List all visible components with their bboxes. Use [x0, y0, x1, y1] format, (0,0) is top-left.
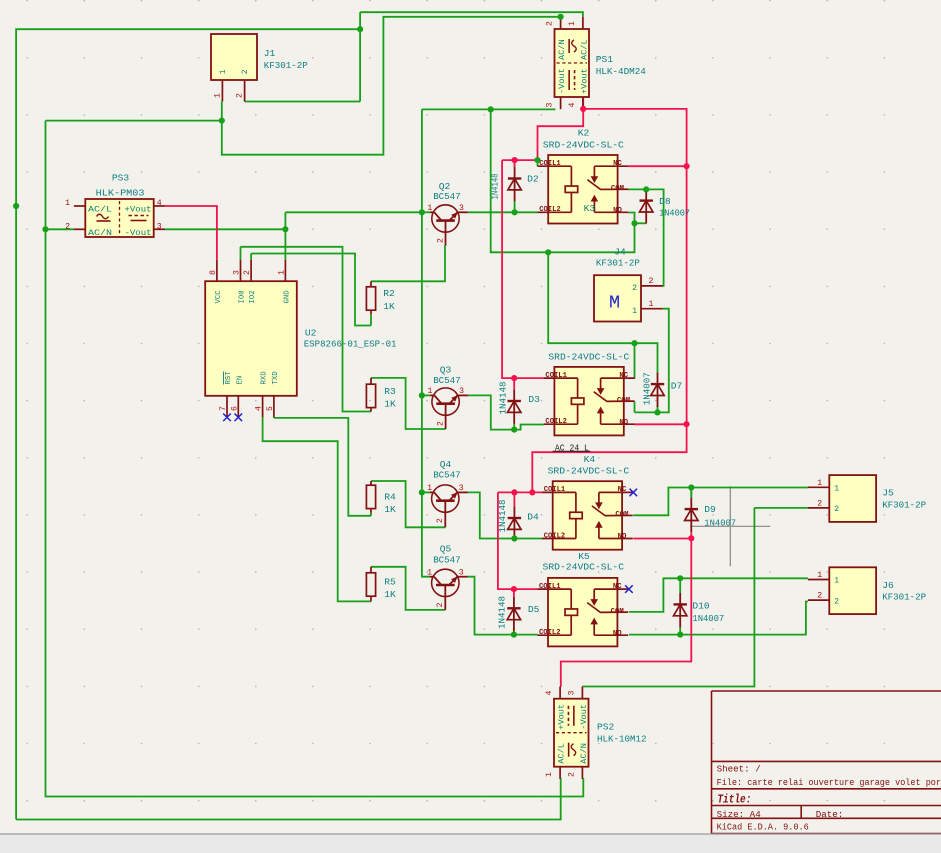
- svg-text:J4: J4: [614, 247, 626, 258]
- svg-text:4: 4: [157, 199, 162, 208]
- svg-text:AC/N: AC/N: [579, 743, 589, 764]
- svg-text:R2: R2: [383, 288, 395, 299]
- svg-text:ESP8266-01_ESP-01: ESP8266-01_ESP-01: [304, 338, 397, 349]
- svg-text:1N4007: 1N4007: [692, 613, 724, 624]
- svg-text:AC/N: AC/N: [557, 39, 567, 60]
- svg-text:Sheet: /: Sheet: /: [717, 764, 761, 775]
- svg-text:COIL1: COIL1: [545, 372, 567, 380]
- svg-text:2: 2: [567, 772, 576, 777]
- svg-text:KF301-2P: KF301-2P: [882, 592, 926, 603]
- svg-text:1: 1: [649, 300, 654, 309]
- svg-text:1N4148: 1N4148: [497, 499, 508, 532]
- svg-text:COIL1: COIL1: [544, 486, 566, 494]
- svg-text:1: 1: [219, 69, 228, 74]
- svg-text:-Vout: -Vout: [125, 228, 152, 238]
- svg-text:2: 2: [436, 421, 445, 426]
- svg-text:NO: NO: [619, 419, 628, 427]
- svg-text:J5: J5: [882, 488, 894, 499]
- svg-text:3: 3: [459, 484, 464, 493]
- svg-text:1N4007: 1N4007: [659, 208, 690, 219]
- svg-text:D9: D9: [704, 504, 716, 515]
- svg-text:4: 4: [568, 103, 577, 108]
- svg-text:SRD-24VDC-SL-C: SRD-24VDC-SL-C: [548, 465, 630, 476]
- svg-text:R4: R4: [384, 492, 396, 503]
- svg-text:D5: D5: [528, 604, 540, 615]
- svg-text:NC: NC: [619, 372, 628, 380]
- svg-text:BC547: BC547: [433, 375, 461, 386]
- svg-text:3: 3: [459, 204, 464, 213]
- svg-text:HLK-4DM24: HLK-4DM24: [596, 66, 646, 77]
- svg-text:-Vout: -Vout: [579, 704, 589, 730]
- svg-text:1: 1: [427, 204, 432, 213]
- svg-text:8: 8: [209, 270, 218, 275]
- svg-text:Size: A4: Size: A4: [717, 809, 762, 820]
- svg-text:HLK-PM03: HLK-PM03: [96, 187, 145, 198]
- svg-text:NO: NO: [613, 630, 622, 638]
- svg-text:PS2: PS2: [597, 722, 615, 733]
- svg-text:R3: R3: [384, 386, 396, 397]
- svg-text:2: 2: [243, 270, 252, 275]
- svg-text:2: 2: [436, 518, 445, 523]
- svg-text:2: 2: [649, 277, 654, 286]
- svg-text:NC: NC: [618, 486, 627, 494]
- svg-text:1: 1: [213, 93, 222, 98]
- svg-text:AC/N: AC/N: [88, 228, 112, 238]
- svg-text:NC: NC: [613, 160, 622, 168]
- svg-text:J6: J6: [882, 580, 894, 591]
- svg-text:1: 1: [834, 577, 839, 586]
- svg-text:1N4007: 1N4007: [704, 518, 736, 529]
- svg-text:2: 2: [65, 222, 70, 231]
- svg-text:Date:: Date:: [816, 809, 844, 820]
- svg-text:1K: 1K: [384, 399, 396, 410]
- svg-text:1: 1: [427, 484, 432, 493]
- svg-text:NO: NO: [618, 533, 627, 541]
- svg-text:SRD-24VDC-SL-C: SRD-24VDC-SL-C: [543, 561, 625, 572]
- svg-text:+Vout: +Vout: [579, 68, 589, 94]
- svg-text:1K: 1K: [384, 589, 396, 600]
- svg-text:AC_24_L: AC_24_L: [555, 443, 589, 453]
- svg-text:1: 1: [427, 568, 432, 577]
- svg-text:TXD: TXD: [272, 371, 280, 385]
- svg-text:2: 2: [632, 284, 637, 293]
- svg-text:1N4007: 1N4007: [641, 372, 652, 405]
- svg-text:1: 1: [817, 479, 822, 488]
- svg-text:COIL2: COIL2: [544, 532, 566, 540]
- svg-text:COIL1: COIL1: [539, 583, 561, 591]
- svg-text:Q3: Q3: [440, 364, 452, 375]
- svg-text:D8: D8: [659, 196, 671, 207]
- svg-text:2: 2: [817, 499, 822, 508]
- svg-text:COIL2: COIL2: [545, 418, 567, 426]
- svg-text:2: 2: [834, 597, 839, 606]
- svg-text:PS3: PS3: [112, 173, 130, 184]
- svg-text:K3: K3: [584, 203, 596, 214]
- svg-text:AC/L: AC/L: [556, 743, 566, 764]
- svg-text:D7: D7: [671, 380, 683, 391]
- svg-text:1: 1: [817, 571, 822, 580]
- svg-text:IO0: IO0: [239, 290, 247, 303]
- svg-text:2: 2: [436, 238, 445, 243]
- svg-text:KF301-2P: KF301-2P: [596, 258, 640, 269]
- svg-text:RST: RST: [225, 371, 233, 385]
- svg-text:M: M: [609, 293, 620, 314]
- svg-text:7: 7: [219, 406, 228, 411]
- svg-text:Q4: Q4: [440, 459, 452, 470]
- svg-text:-Vout: -Vout: [557, 68, 567, 94]
- svg-text:KiCad E.D.A. 9.0.6: KiCad E.D.A. 9.0.6: [717, 822, 809, 833]
- svg-text:3: 3: [157, 222, 162, 231]
- svg-text:KF301-2P: KF301-2P: [264, 60, 308, 71]
- svg-text:BC547: BC547: [433, 554, 461, 565]
- svg-text:NC: NC: [613, 583, 622, 591]
- svg-text:HLK-10M12: HLK-10M12: [597, 733, 647, 744]
- svg-text:PS1: PS1: [596, 54, 614, 65]
- svg-text:U2: U2: [305, 327, 317, 338]
- svg-text:1: 1: [65, 199, 70, 208]
- svg-text:K4: K4: [584, 454, 596, 465]
- svg-text:3: 3: [459, 568, 464, 577]
- svg-text:1: 1: [427, 387, 432, 396]
- svg-text:1N4148: 1N4148: [490, 173, 501, 199]
- svg-text:D4: D4: [527, 511, 539, 522]
- svg-text:COM: COM: [611, 608, 625, 616]
- svg-text:COM: COM: [611, 185, 625, 193]
- svg-text:5: 5: [266, 406, 275, 411]
- svg-text:R5: R5: [384, 577, 396, 588]
- svg-text:3: 3: [459, 387, 464, 396]
- svg-text:3: 3: [546, 103, 555, 108]
- svg-text:BC547: BC547: [433, 191, 461, 202]
- svg-text:D2: D2: [527, 174, 539, 185]
- svg-text:D3: D3: [528, 394, 540, 405]
- svg-text:Title:: Title:: [717, 792, 751, 806]
- svg-text:RXD: RXD: [261, 371, 269, 385]
- svg-text:GND: GND: [283, 290, 291, 304]
- svg-text:2: 2: [834, 505, 839, 514]
- svg-text:1N4148: 1N4148: [497, 596, 508, 629]
- svg-text:1: 1: [277, 270, 286, 275]
- svg-text:4: 4: [545, 691, 554, 696]
- svg-text:1: 1: [545, 772, 554, 777]
- svg-text:COIL1: COIL1: [539, 160, 561, 168]
- svg-text:1K: 1K: [383, 301, 395, 312]
- svg-text:NO: NO: [613, 207, 622, 215]
- svg-text:VCC: VCC: [215, 290, 223, 304]
- svg-text:KF301-2P: KF301-2P: [882, 500, 926, 511]
- svg-text:COM: COM: [615, 511, 629, 519]
- svg-text:SRD-24VDC-SL-C: SRD-24VDC-SL-C: [548, 351, 629, 362]
- svg-text:2: 2: [436, 602, 445, 607]
- svg-text:+Vout: +Vout: [556, 704, 566, 730]
- svg-text:D10: D10: [692, 601, 710, 612]
- svg-text:2: 2: [236, 93, 245, 98]
- svg-text:IO2: IO2: [249, 290, 257, 303]
- svg-text:AC/L: AC/L: [88, 205, 112, 215]
- svg-text:2: 2: [241, 69, 250, 74]
- svg-text:J1: J1: [264, 48, 276, 59]
- svg-text:3: 3: [567, 691, 576, 696]
- svg-text:COIL2: COIL2: [539, 629, 561, 637]
- svg-text:2: 2: [817, 592, 822, 601]
- svg-text:File: carte relai ouverture ga: File: carte relai ouverture garage volet…: [717, 777, 941, 788]
- svg-text:3: 3: [233, 270, 242, 275]
- svg-text:2: 2: [546, 21, 555, 26]
- svg-text:AC/L: AC/L: [579, 39, 589, 60]
- svg-text:EN: EN: [236, 376, 244, 385]
- svg-text:BC547: BC547: [433, 470, 461, 481]
- svg-text:6: 6: [230, 406, 239, 411]
- svg-text:+Vout: +Vout: [125, 205, 152, 215]
- svg-text:SRD-24VDC-SL-C: SRD-24VDC-SL-C: [543, 140, 624, 151]
- svg-text:4: 4: [255, 406, 264, 411]
- svg-text:1: 1: [568, 21, 577, 26]
- svg-text:Q5: Q5: [440, 544, 452, 555]
- svg-text:1N4148: 1N4148: [498, 381, 509, 414]
- svg-text:COM: COM: [617, 397, 631, 405]
- svg-text:1K: 1K: [384, 504, 396, 515]
- svg-text:1: 1: [834, 485, 839, 494]
- svg-text:K2: K2: [578, 128, 590, 139]
- svg-text:1: 1: [632, 307, 637, 316]
- svg-text:COIL2: COIL2: [539, 206, 561, 214]
